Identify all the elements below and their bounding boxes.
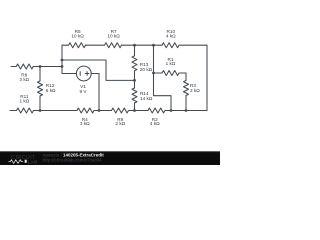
svg-text:4 kΩ: 4 kΩ	[166, 33, 176, 38]
svg-text:4 kΩ: 4 kΩ	[150, 121, 160, 126]
svg-text:10 kΩ: 10 kΩ	[71, 33, 84, 38]
svg-text:3 kΩ: 3 kΩ	[80, 121, 90, 126]
svg-text:1 kΩ: 1 kΩ	[166, 61, 176, 66]
svg-text:http://circuitlab.com/c73a034: http://circuitlab.com/c73a034	[43, 157, 103, 162]
svg-text:20 kΩ: 20 kΩ	[140, 67, 153, 72]
svg-text:9 V: 9 V	[79, 89, 87, 94]
svg-text:3 kΩ: 3 kΩ	[19, 77, 29, 82]
svg-text:LAB: LAB	[28, 159, 39, 165]
svg-text:2 kΩ: 2 kΩ	[115, 121, 125, 126]
svg-text:14 kΩ: 14 kΩ	[140, 96, 153, 101]
svg-text:1 kΩ: 1 kΩ	[20, 99, 30, 104]
svg-text:2 kΩ: 2 kΩ	[190, 88, 200, 93]
svg-text:10 kΩ: 10 kΩ	[107, 33, 120, 38]
svg-text:6 kΩ: 6 kΩ	[46, 88, 56, 93]
